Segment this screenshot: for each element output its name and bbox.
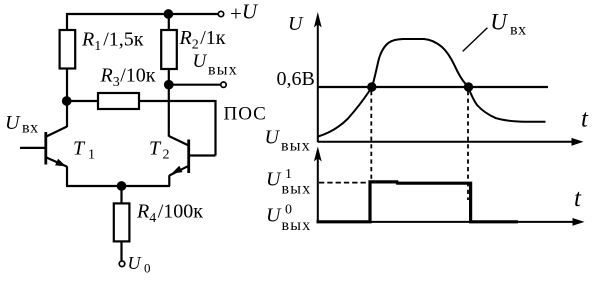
svg-text:T: T bbox=[73, 138, 86, 160]
wire node A to R3 bbox=[67, 100, 98, 102]
wire top rail +U bbox=[67, 14, 218, 30]
svg-text:R4/100к: R4/100к bbox=[136, 201, 203, 227]
graph1 t axis bbox=[318, 141, 574, 143]
svg-text:вых: вых bbox=[281, 137, 311, 154]
svg-text:вых: вых bbox=[282, 217, 312, 234]
svg-text:t: t bbox=[581, 105, 589, 132]
transistor T2 bbox=[169, 136, 189, 186]
wire POS bottom to T2 base bbox=[189, 154, 216, 156]
T1 emitter arrow bbox=[55, 159, 66, 167]
svg-text:1: 1 bbox=[88, 148, 95, 163]
graph2 U axis bbox=[317, 156, 319, 222]
svg-text:вых: вых bbox=[282, 181, 312, 198]
T1 base bar bbox=[44, 132, 47, 165]
svg-text:U: U bbox=[288, 13, 304, 35]
svg-text:вых: вых bbox=[208, 61, 238, 78]
graph2 U axis arrow bbox=[314, 147, 322, 162]
graph1 t axis arrow bbox=[572, 138, 584, 146]
terminal +U open circle bbox=[218, 11, 223, 16]
wire POS right vertical bbox=[214, 100, 216, 156]
terminal U0 open circle bbox=[119, 261, 125, 267]
wire common emitter bottom bbox=[66, 185, 170, 187]
wire R2 bottom to output node bbox=[168, 69, 170, 86]
T2 emitter wire down bbox=[168, 175, 170, 186]
node junction at top rail / R2 bbox=[164, 9, 174, 19]
T1 emitter diagonal bbox=[46, 157, 67, 166]
node dot threshold crossing right bbox=[464, 82, 473, 91]
svg-text:U: U bbox=[265, 126, 281, 148]
svg-text:0,6В: 0,6В bbox=[277, 68, 315, 90]
svg-text:t: t bbox=[574, 185, 582, 212]
dashed vertical right crossing bbox=[467, 91, 469, 200]
node output (collector T2) bbox=[164, 80, 174, 90]
svg-text:ПОС: ПОС bbox=[224, 104, 267, 125]
T1 emitter wire down bbox=[66, 166, 68, 186]
graph2 t axis bbox=[318, 221, 575, 223]
resistor R2 bbox=[161, 30, 177, 69]
wire R3 right to POS corner bbox=[139, 100, 216, 102]
terminal Uvyh open circle bbox=[221, 82, 226, 87]
graph1 U axis arrow bbox=[314, 12, 322, 28]
dashed level line U1vyh bbox=[319, 182, 368, 184]
T1 collector diagonal bbox=[46, 127, 67, 137]
svg-text:U: U bbox=[128, 253, 142, 273]
graph2 t axis arrow bbox=[573, 218, 585, 226]
svg-text:вх: вх bbox=[510, 22, 527, 39]
wire R4 bottom to U0 terminal bbox=[120, 241, 122, 261]
svg-text:2: 2 bbox=[163, 148, 170, 163]
wire collector T2 from output node bbox=[168, 85, 170, 137]
svg-text:T: T bbox=[149, 138, 162, 160]
svg-text:+U: +U bbox=[230, 0, 259, 26]
wire R2 top to rail bbox=[168, 14, 170, 30]
svg-text:U: U bbox=[193, 51, 208, 72]
node dot threshold crossing left bbox=[367, 82, 376, 91]
svg-text:R1/1,5к: R1/1,5к bbox=[81, 28, 144, 54]
svg-text:U: U bbox=[266, 205, 282, 227]
T2 base bar bbox=[187, 140, 190, 174]
wire node to R4 bbox=[120, 186, 122, 203]
svg-text:R2/1к: R2/1к bbox=[179, 27, 226, 53]
svg-text:U: U bbox=[490, 9, 508, 34]
svg-text:0: 0 bbox=[285, 203, 292, 218]
svg-text:U: U bbox=[5, 112, 21, 134]
pointer line to curve bbox=[463, 28, 488, 52]
node A (collector T1) bbox=[62, 96, 72, 106]
threshold line 0,6V bbox=[318, 86, 548, 88]
dashed vertical left crossing bbox=[370, 91, 372, 181]
svg-text:R3/10к: R3/10к bbox=[100, 65, 156, 91]
graph1 U axis bbox=[317, 24, 319, 142]
waveform Uvyh pulse bbox=[317, 182, 519, 222]
transistor T1 bbox=[20, 101, 67, 186]
svg-text:вх: вх bbox=[22, 120, 39, 137]
curve Uvh input waveform bbox=[318, 39, 546, 137]
T2 emitter arrow bbox=[172, 166, 183, 174]
wire R1 bottom to node A bbox=[66, 69, 68, 102]
T2 collector diagonal bbox=[169, 136, 189, 146]
resistor R3 bbox=[98, 93, 139, 109]
svg-text:U: U bbox=[266, 169, 282, 191]
T2 emitter diagonal bbox=[169, 166, 188, 176]
resistor R1 bbox=[60, 30, 76, 69]
node emitter junction bbox=[117, 181, 127, 191]
wire output to terminal bbox=[169, 84, 221, 86]
T1 base lead bbox=[20, 147, 46, 149]
resistor R4 bbox=[114, 203, 130, 241]
svg-text:0: 0 bbox=[144, 261, 151, 276]
T1 collector wire up to node A bbox=[66, 101, 68, 127]
